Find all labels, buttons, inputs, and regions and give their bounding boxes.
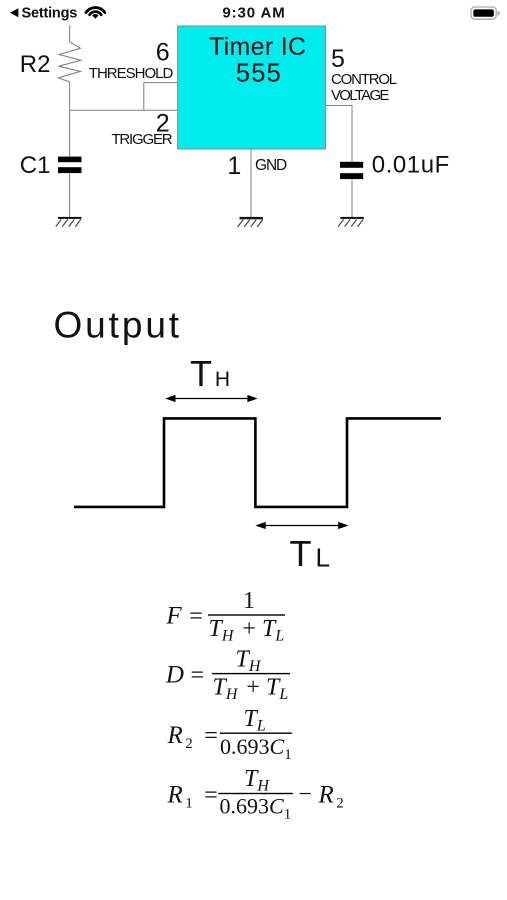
formula R1 = TH/(0.693 C1) - R2	[167, 766, 344, 823]
svg-text:=: =	[204, 783, 218, 809]
svg-text:0.693C1: 0.693C1	[220, 734, 292, 763]
svg-text:=: =	[191, 662, 205, 688]
ground right	[338, 217, 364, 227]
svg-text:T: T	[190, 353, 212, 394]
arrow TL	[255, 522, 348, 529]
status bar battery	[471, 7, 500, 19]
svg-text:TH + TL: TH + TL	[209, 616, 285, 645]
wire C2 to ground	[351, 179, 353, 217]
svg-text:Settings: Settings	[22, 6, 78, 22]
svg-text:L: L	[316, 543, 330, 573]
ground center	[238, 217, 263, 227]
pin 5 label CONTROL VOLTAGE	[331, 71, 397, 104]
svg-text:VOLTAGE: VOLTAGE	[331, 87, 389, 104]
svg-text:0.693C1: 0.693C1	[220, 794, 292, 823]
svg-text:6: 6	[156, 39, 170, 67]
formula D = TH/(TH+TL)	[165, 647, 290, 704]
svg-text:555: 555	[236, 60, 282, 88]
arrow TH	[165, 395, 258, 402]
wire C1 to ground	[69, 173, 71, 217]
output waveform	[74, 418, 441, 507]
wire pin 1 to ground	[250, 149, 252, 217]
svg-text:R2: R2	[20, 51, 51, 78]
svg-text:1: 1	[227, 152, 241, 180]
svg-text:TH + TL: TH + TL	[213, 675, 289, 704]
formula R2 = TL/(0.693 C1)	[167, 706, 292, 763]
svg-text:TRIGGER: TRIGGER	[111, 131, 172, 148]
svg-text:=: =	[189, 604, 203, 630]
wire R2 to node A	[69, 82, 71, 110]
wire threshold step	[144, 83, 178, 111]
wire Vcc to R2	[69, 25, 71, 42]
svg-text:5: 5	[331, 45, 345, 73]
svg-text:GND: GND	[255, 157, 287, 174]
svg-text:9:30 AM: 9:30 AM	[222, 5, 285, 22]
svg-text:T: T	[290, 533, 312, 574]
svg-text:Output: Output	[54, 304, 182, 345]
status bar wifi icon	[86, 8, 105, 19]
formula F = 1/(TH+TL)	[165, 588, 285, 645]
ground left	[56, 217, 82, 227]
svg-text:F: F	[165, 603, 182, 630]
label TH	[190, 353, 230, 394]
wire node A to C1	[69, 110, 71, 157]
status bar back button	[10, 6, 77, 22]
svg-text:Timer IC: Timer IC	[209, 33, 306, 61]
svg-text:H: H	[215, 368, 230, 391]
svg-text:=: =	[204, 723, 218, 749]
svg-text:D: D	[165, 661, 184, 688]
wire pin 5	[326, 106, 352, 162]
svg-text:0.01uF: 0.01uF	[372, 151, 450, 178]
label TL	[290, 533, 330, 574]
svg-text:C1: C1	[20, 152, 51, 179]
svg-text:−: −	[298, 782, 312, 808]
node A trigger wire	[70, 109, 178, 111]
op-amp U1 555 timer IC body	[178, 26, 326, 149]
capacitor C2 0.01uF	[340, 162, 363, 179]
svg-text:1: 1	[243, 588, 255, 614]
resistor R2	[58, 42, 80, 82]
svg-text:THRESHOLD: THRESHOLD	[89, 65, 174, 82]
svg-text:CONTROL: CONTROL	[331, 71, 397, 88]
capacitor C1	[58, 157, 82, 173]
